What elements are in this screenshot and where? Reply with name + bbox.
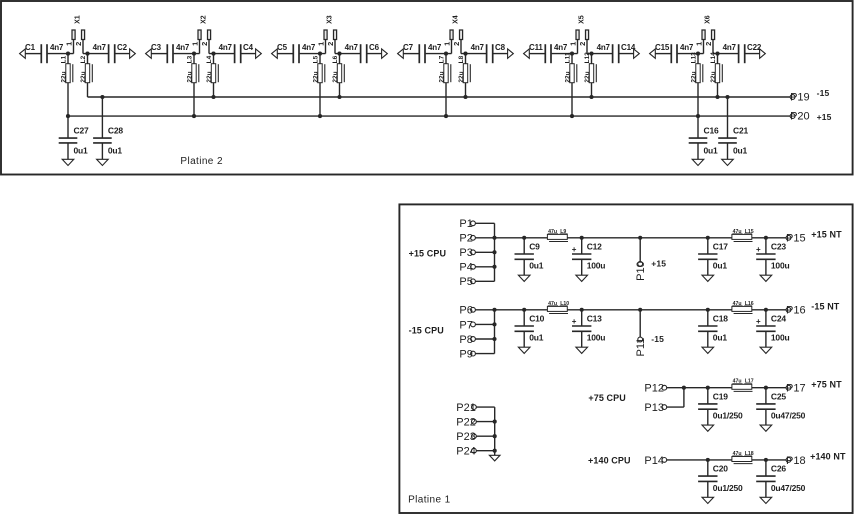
pin P11 xyxy=(638,308,642,312)
node P3 junction xyxy=(492,250,496,254)
node L14 to -15 bus xyxy=(715,95,719,99)
svg-text:L14: L14 xyxy=(710,52,717,64)
node C21 junction xyxy=(725,95,729,99)
node C26 junction xyxy=(764,458,768,462)
svg-text:+75 NT: +75 NT xyxy=(811,379,842,389)
svg-text:2: 2 xyxy=(74,42,83,46)
node C17 junction xyxy=(706,236,710,240)
svg-text:P10: P10 xyxy=(635,261,647,281)
wire xyxy=(461,53,487,55)
ground below C10 xyxy=(518,347,530,353)
pin P19 xyxy=(790,95,795,100)
svg-text:22u: 22u xyxy=(332,71,339,82)
svg-text:P20: P20 xyxy=(790,111,810,123)
svg-text:P18: P18 xyxy=(786,455,806,467)
pin P16 xyxy=(786,307,791,312)
svg-text:22u: 22u xyxy=(186,71,193,82)
pin P23 xyxy=(472,434,477,439)
capacitor C7 4n7 xyxy=(418,44,420,63)
capacitor C4 4n7 xyxy=(234,44,236,63)
wire xyxy=(667,387,684,389)
node C25 junction xyxy=(764,386,768,390)
ground below C26 xyxy=(760,497,772,503)
wire xyxy=(475,266,494,268)
wire xyxy=(475,222,494,224)
inductor L18 47u xyxy=(732,457,752,462)
wire xyxy=(493,53,509,55)
wire xyxy=(367,53,383,55)
capacitor C11 4n7 xyxy=(544,44,546,63)
svg-text:100u: 100u xyxy=(771,333,790,343)
svg-text:4n7: 4n7 xyxy=(597,43,611,52)
ground below C23 xyxy=(760,275,772,281)
svg-text:4n7: 4n7 xyxy=(680,43,694,52)
ground below C13 xyxy=(576,347,588,353)
pin P2 xyxy=(471,235,476,240)
svg-text:1: 1 xyxy=(65,42,74,46)
svg-text:0u1: 0u1 xyxy=(733,146,748,156)
svg-text:+15 CPU: +15 CPU xyxy=(409,248,446,258)
svg-text:22u: 22u xyxy=(690,71,697,82)
wire xyxy=(174,53,200,55)
svg-text:L6: L6 xyxy=(332,55,339,63)
svg-text:0u1: 0u1 xyxy=(704,146,719,156)
svg-text:P4: P4 xyxy=(459,262,472,274)
svg-text:+140 CPU: +140 CPU xyxy=(588,456,631,466)
svg-text:X3: X3 xyxy=(326,15,333,24)
pin P22 xyxy=(472,419,477,424)
node L8 to -15 bus xyxy=(463,95,467,99)
svg-text:0u1: 0u1 xyxy=(713,333,728,343)
node P24 junction xyxy=(493,449,497,453)
svg-text:P1: P1 xyxy=(459,218,472,230)
svg-text:C23: C23 xyxy=(771,241,786,251)
svg-text:X2: X2 xyxy=(200,15,207,24)
svg-text:1: 1 xyxy=(191,42,200,46)
svg-text:0u1: 0u1 xyxy=(713,261,728,271)
svg-text:Platine 2: Platine 2 xyxy=(180,156,223,167)
svg-text:C6: C6 xyxy=(369,43,380,52)
capacitor C16 0u1 xyxy=(697,116,699,138)
inductor L9 47u xyxy=(547,234,567,239)
svg-text:L4: L4 xyxy=(206,55,213,63)
svg-text:C10: C10 xyxy=(529,313,544,323)
svg-text:L13: L13 xyxy=(690,52,697,64)
svg-text:0u1/250: 0u1/250 xyxy=(713,483,743,493)
pin P3 xyxy=(471,250,476,255)
connector X2 pin 2 xyxy=(208,40,210,54)
pin P15 xyxy=(786,235,791,240)
svg-text:22u: 22u xyxy=(458,71,465,82)
connector arrow C7 xyxy=(398,49,404,58)
capacitor C27 0u1 xyxy=(67,116,69,138)
svg-text:2: 2 xyxy=(704,42,713,46)
svg-text:-15: -15 xyxy=(817,88,830,98)
svg-text:22u: 22u xyxy=(438,71,445,82)
svg-text:4n7: 4n7 xyxy=(554,43,568,52)
svg-text:+: + xyxy=(756,245,761,254)
connector X5 pin 1 xyxy=(577,40,579,54)
inductor L3 22u xyxy=(192,64,196,83)
wire xyxy=(591,54,593,97)
node C10 junction xyxy=(522,308,526,312)
connector X6 pin 2 xyxy=(712,40,714,54)
svg-text:22u: 22u xyxy=(60,71,67,82)
svg-text:L12: L12 xyxy=(584,52,591,64)
svg-text:C28: C28 xyxy=(108,126,123,136)
ground below P24 xyxy=(489,455,500,461)
wire xyxy=(717,54,719,97)
node P7 junction xyxy=(492,322,496,326)
svg-text:4n7: 4n7 xyxy=(50,43,64,52)
node C7 junction xyxy=(444,52,448,56)
svg-text:C19: C19 xyxy=(713,391,728,401)
connector arrow C11 xyxy=(524,49,530,58)
inductor L15 47u xyxy=(732,234,752,239)
connector arrow C2 xyxy=(130,49,136,58)
capacitor C15 4n7 xyxy=(670,44,672,63)
inductor L6 22u xyxy=(337,64,341,83)
node P22 junction xyxy=(493,420,497,424)
pin P20 xyxy=(790,114,795,119)
capacitor C24 100u xyxy=(765,310,767,326)
wire xyxy=(87,54,89,97)
node C13 junction xyxy=(580,308,584,312)
svg-text:+15: +15 xyxy=(817,112,832,122)
wire xyxy=(475,338,494,340)
svg-text:22u: 22u xyxy=(206,71,213,82)
svg-text:C18: C18 xyxy=(713,313,728,323)
svg-text:0u1: 0u1 xyxy=(74,146,89,156)
wire xyxy=(475,237,494,239)
ground below C28 xyxy=(97,159,109,165)
svg-text:L1: L1 xyxy=(60,55,67,63)
svg-text:4n7: 4n7 xyxy=(723,43,737,52)
svg-text:22u: 22u xyxy=(80,71,87,82)
capacitor C17 0u1 xyxy=(707,238,709,254)
ground below C20 xyxy=(702,497,714,503)
svg-text:C17: C17 xyxy=(713,241,728,251)
svg-text:C15: C15 xyxy=(655,43,670,52)
svg-text:C13: C13 xyxy=(587,313,602,323)
svg-text:P22: P22 xyxy=(456,417,476,429)
svg-text:L3: L3 xyxy=(186,55,193,63)
svg-text:1: 1 xyxy=(569,42,578,46)
svg-text:P3: P3 xyxy=(459,247,472,259)
ground below C19 xyxy=(702,425,714,431)
connector arrow C1 xyxy=(20,49,26,58)
wire xyxy=(745,53,761,55)
svg-text:-15 NT: -15 NT xyxy=(811,301,840,311)
connector X5 pin 2 xyxy=(586,40,588,54)
inductor L7 22u xyxy=(444,64,448,83)
node L12 to -15 bus xyxy=(589,95,593,99)
node L5 to +15 bus xyxy=(318,114,322,118)
svg-text:-15 CPU: -15 CPU xyxy=(409,326,444,336)
inductor L5 22u xyxy=(318,64,322,83)
capacitor C5 4n7 xyxy=(292,44,294,63)
wire xyxy=(319,54,321,117)
pin P21 xyxy=(472,405,477,410)
svg-text:22u: 22u xyxy=(710,71,717,82)
capacitor C22 4n7 xyxy=(738,44,740,63)
pin P8 xyxy=(471,337,476,342)
svg-text:4n7: 4n7 xyxy=(93,43,107,52)
wire xyxy=(476,450,494,452)
svg-text:0u1: 0u1 xyxy=(529,261,544,271)
wire xyxy=(403,53,418,55)
svg-text:P11: P11 xyxy=(635,338,647,357)
svg-text:C8: C8 xyxy=(495,43,506,52)
svg-text:C3: C3 xyxy=(151,43,162,52)
wire +75 rail xyxy=(684,387,786,389)
svg-text:P16: P16 xyxy=(786,305,806,317)
inductor L4 22u xyxy=(211,64,215,83)
ground below C24 xyxy=(760,347,772,353)
capacitor C18 0u1 xyxy=(707,310,709,326)
svg-text:C12: C12 xyxy=(587,241,602,251)
svg-text:+: + xyxy=(572,317,577,326)
wire xyxy=(587,53,613,55)
svg-text:2: 2 xyxy=(578,42,587,46)
wire -15 bus xyxy=(88,96,791,98)
pin P10 xyxy=(638,236,642,240)
svg-text:P5: P5 xyxy=(459,276,472,288)
inductor L14 22u xyxy=(715,64,719,83)
inductor L8 22u xyxy=(463,64,467,83)
wire xyxy=(209,53,235,55)
svg-text:P13: P13 xyxy=(644,402,664,414)
wire xyxy=(476,435,494,437)
ground below C27 xyxy=(62,159,74,165)
wire +140 rail xyxy=(667,459,786,461)
svg-text:2: 2 xyxy=(200,42,209,46)
node P4 junction xyxy=(492,265,496,269)
svg-text:-15: -15 xyxy=(651,334,664,344)
svg-text:4n7: 4n7 xyxy=(302,43,316,52)
wire xyxy=(339,54,341,97)
wire -15 rail xyxy=(495,309,787,311)
node L4 to -15 bus xyxy=(211,95,215,99)
connector X4 pin 2 xyxy=(460,40,462,54)
svg-text:L11: L11 xyxy=(564,52,571,63)
svg-text:X5: X5 xyxy=(578,15,585,24)
capacitor C10 0u1 xyxy=(523,310,525,326)
capacitor C26 0u47/250 xyxy=(765,460,767,476)
svg-text:+: + xyxy=(756,317,761,326)
node C24 junction xyxy=(764,308,768,312)
connector X1 pin 2 xyxy=(82,40,84,54)
inductor L10 47u xyxy=(547,306,567,311)
wire xyxy=(193,54,195,117)
svg-text:100u: 100u xyxy=(771,261,790,271)
wire xyxy=(475,251,494,253)
connector X3 pin 2 xyxy=(334,40,336,54)
svg-text:C21: C21 xyxy=(733,126,748,136)
frame Platine 1 board outline xyxy=(399,204,852,513)
wire xyxy=(445,54,447,117)
node P2 junction xyxy=(492,236,496,240)
inductor L13 22u xyxy=(696,64,700,83)
connector X6 pin 1 xyxy=(703,40,705,54)
pin P4 xyxy=(471,264,476,269)
pin P17 xyxy=(786,385,791,390)
wire xyxy=(67,54,69,117)
node C20 junction xyxy=(706,458,710,462)
wire xyxy=(697,54,699,117)
node C8 junction xyxy=(463,52,467,56)
svg-text:Platine 1: Platine 1 xyxy=(408,495,451,506)
capacitor C25 0u47/250 xyxy=(765,388,767,404)
inductor L1 22u xyxy=(66,64,70,83)
svg-text:P9: P9 xyxy=(459,349,472,361)
node C11 junction xyxy=(570,52,574,56)
svg-text:4n7: 4n7 xyxy=(428,43,442,52)
node C3 junction xyxy=(192,52,196,56)
pin P18 xyxy=(786,458,791,463)
node C14 junction xyxy=(589,52,593,56)
pin P1 xyxy=(471,221,476,226)
wire xyxy=(713,53,739,55)
inductor L17 47u xyxy=(732,384,752,389)
svg-text:2: 2 xyxy=(326,42,335,46)
pin P13 xyxy=(662,405,667,410)
node C28 junction xyxy=(100,95,104,99)
capacitor C6 4n7 xyxy=(360,44,362,63)
svg-text:L7: L7 xyxy=(438,55,445,63)
node C4 junction xyxy=(211,52,215,56)
svg-text:+140 NT: +140 NT xyxy=(810,452,846,462)
svg-text:C2: C2 xyxy=(117,43,128,52)
node L1 to +15 bus xyxy=(66,114,70,118)
svg-text:P23: P23 xyxy=(456,431,476,443)
node C1 junction xyxy=(66,52,70,56)
connector arrow C8 xyxy=(508,49,514,58)
wire +15 bus xyxy=(68,115,790,117)
svg-text:X4: X4 xyxy=(452,15,459,24)
node C18 junction xyxy=(706,308,710,312)
svg-text:C16: C16 xyxy=(704,126,719,136)
wire xyxy=(678,53,704,55)
svg-text:P8: P8 xyxy=(459,334,472,346)
wire xyxy=(115,53,131,55)
node C12 junction xyxy=(580,236,584,240)
connector X3 pin 1 xyxy=(325,40,327,54)
svg-text:4n7: 4n7 xyxy=(471,43,485,52)
svg-text:L5: L5 xyxy=(312,55,319,63)
ground below C16 xyxy=(692,159,704,165)
ground below C9 xyxy=(518,275,530,281)
node L13 to +15 bus xyxy=(696,114,700,118)
capacitor C3 4n7 xyxy=(166,44,168,63)
svg-text:4n7: 4n7 xyxy=(219,43,233,52)
svg-text:1: 1 xyxy=(317,42,326,46)
svg-text:0u1/250: 0u1/250 xyxy=(713,411,743,421)
pin P6 xyxy=(471,307,476,312)
svg-text:100u: 100u xyxy=(587,261,606,271)
pin P24 xyxy=(472,448,477,453)
node P8 junction xyxy=(492,337,496,341)
node C5 junction xyxy=(318,52,322,56)
pin P7 xyxy=(471,322,476,327)
wire xyxy=(655,53,670,55)
pin P14 xyxy=(662,458,667,463)
wire pin header bus xyxy=(494,407,496,455)
connector arrow C15 xyxy=(650,49,656,58)
connector arrow C5 xyxy=(272,49,278,58)
wire xyxy=(465,54,467,97)
capacitor C20 0u1/250 xyxy=(707,460,709,476)
ground below C25 xyxy=(760,425,772,431)
node P12/P13 junction xyxy=(682,386,686,390)
svg-text:4n7: 4n7 xyxy=(176,43,190,52)
svg-text:C26: C26 xyxy=(771,464,786,474)
capacitor C2 4n7 xyxy=(108,44,110,63)
pin P5 xyxy=(471,279,476,284)
inductor L2 22u xyxy=(85,64,89,83)
svg-text:P6: P6 xyxy=(459,305,472,317)
wire xyxy=(475,309,494,311)
pin P12 xyxy=(662,385,667,390)
connector X2 pin 1 xyxy=(199,40,201,54)
capacitor C21 0u1 xyxy=(727,97,729,138)
svg-text:0u1: 0u1 xyxy=(529,333,544,343)
node C15 junction xyxy=(696,52,700,56)
node L6 to -15 bus xyxy=(337,95,341,99)
svg-text:P2: P2 xyxy=(459,233,472,245)
svg-text:X1: X1 xyxy=(74,15,81,24)
connector arrow C6 xyxy=(382,49,388,58)
capacitor C14 4n7 xyxy=(612,44,614,63)
wire xyxy=(300,53,326,55)
node C6 junction xyxy=(337,52,341,56)
capacitor C12 100u xyxy=(581,238,583,254)
wire xyxy=(213,54,215,97)
svg-text:C9: C9 xyxy=(529,241,540,251)
svg-text:C27: C27 xyxy=(74,126,89,136)
wire xyxy=(241,53,257,55)
capacitor C8 4n7 xyxy=(486,44,488,63)
svg-text:L2: L2 xyxy=(80,55,87,63)
wire pin header bus xyxy=(494,310,496,354)
svg-text:+15 NT: +15 NT xyxy=(811,229,842,239)
svg-text:P21: P21 xyxy=(456,402,476,414)
svg-text:+15: +15 xyxy=(651,259,666,269)
capacitor C19 0u1/250 xyxy=(707,388,709,404)
node C22 junction xyxy=(715,52,719,56)
wire xyxy=(83,53,109,55)
connector arrow C22 xyxy=(760,49,766,58)
node C23 junction xyxy=(764,236,768,240)
svg-text:L8: L8 xyxy=(458,55,465,63)
wire xyxy=(151,53,166,55)
svg-text:0u1: 0u1 xyxy=(108,146,123,156)
ground below C17 xyxy=(702,275,714,281)
svg-text:0u47/250: 0u47/250 xyxy=(771,483,806,493)
svg-text:22u: 22u xyxy=(584,71,591,82)
wire xyxy=(667,406,684,408)
wire pin header bus xyxy=(494,223,496,281)
node L7 to +15 bus xyxy=(444,114,448,118)
capacitor C28 0u1 xyxy=(101,97,103,138)
svg-text:1: 1 xyxy=(443,42,452,46)
svg-text:P12: P12 xyxy=(644,383,664,395)
wire xyxy=(277,53,292,55)
svg-text:C24: C24 xyxy=(771,313,786,323)
svg-text:22u: 22u xyxy=(312,71,319,82)
svg-text:C20: C20 xyxy=(713,464,728,474)
svg-text:C25: C25 xyxy=(771,391,786,401)
